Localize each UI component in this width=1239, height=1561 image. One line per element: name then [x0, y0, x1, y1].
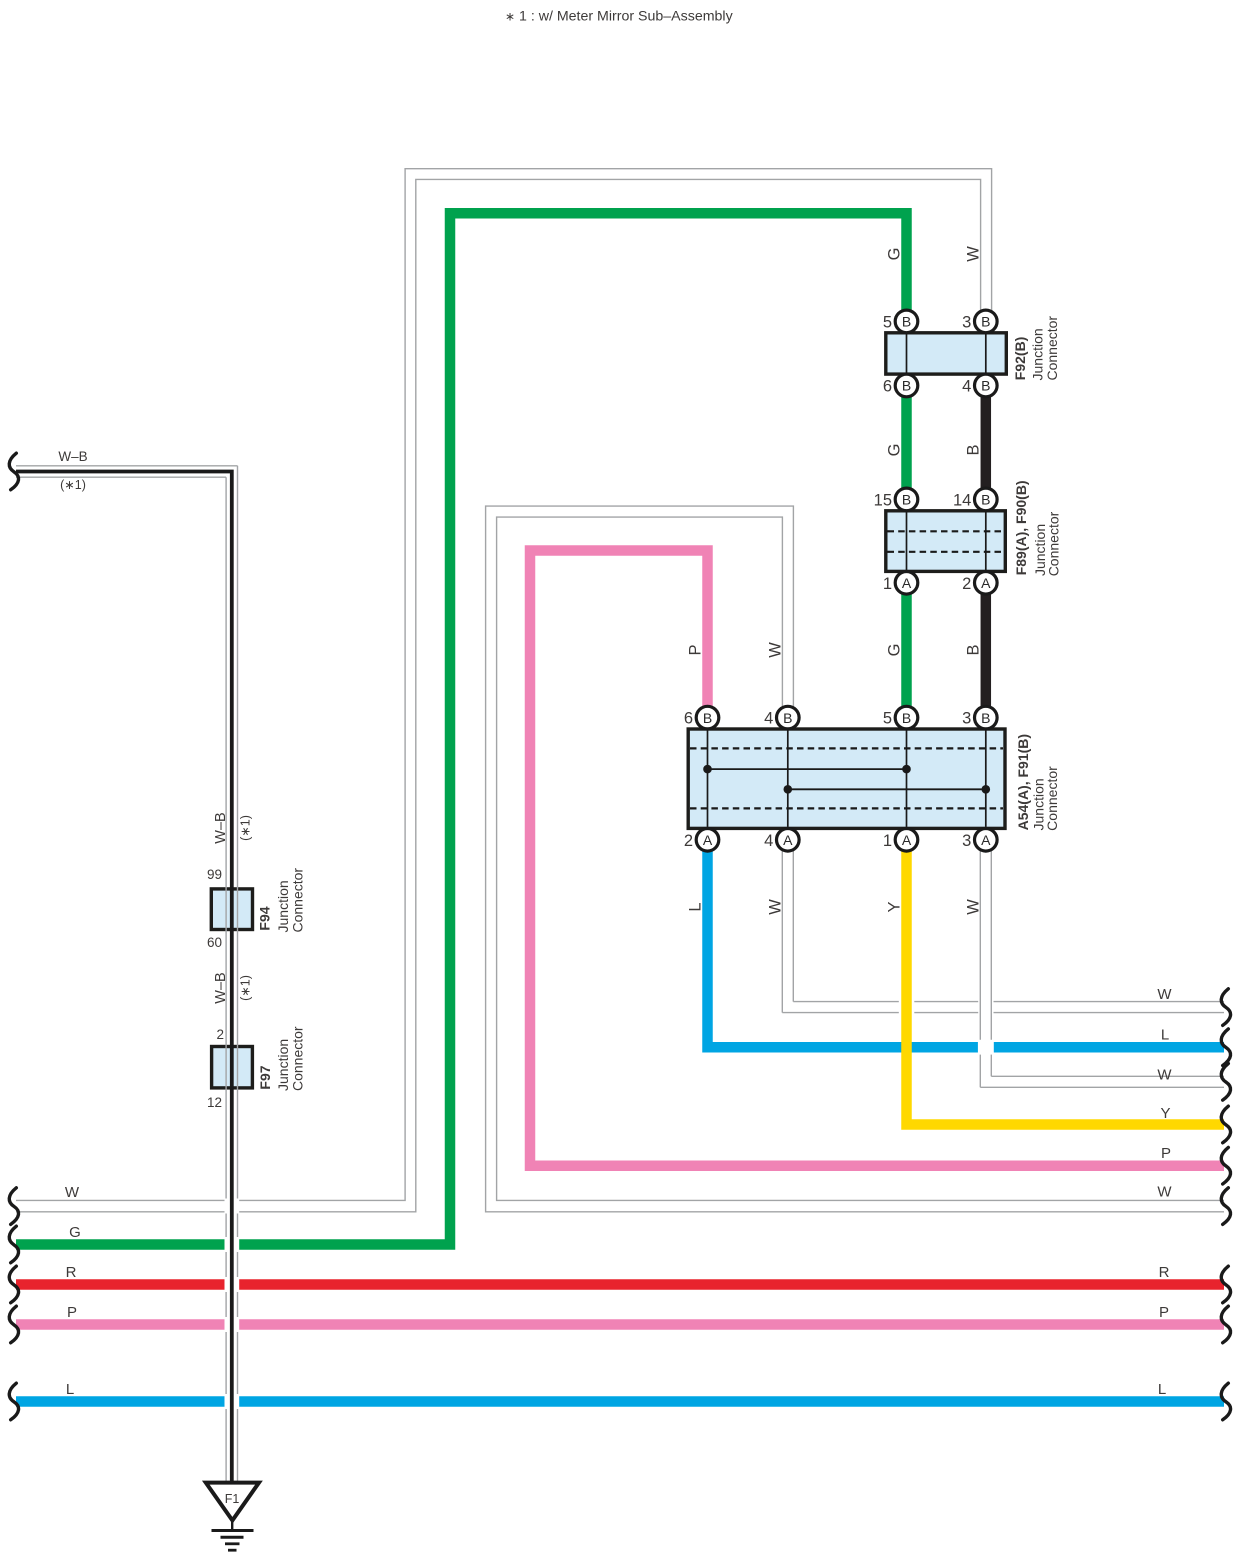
pin 3 A54 bottom: [975, 829, 998, 852]
svg-text:1: 1: [883, 832, 892, 850]
svg-text:B: B: [964, 444, 982, 455]
pin 5 F92: [895, 310, 918, 333]
svg-text:B: B: [981, 314, 990, 330]
svg-text:L: L: [1161, 1026, 1169, 1043]
svg-text:2: 2: [962, 575, 971, 593]
svg-text:R: R: [1159, 1264, 1170, 1281]
break symbol left W-B: [9, 453, 18, 490]
svg-text:P: P: [1159, 1304, 1169, 1321]
pin 4 F92: [975, 374, 998, 397]
svg-text:A: A: [703, 832, 713, 848]
svg-text:4: 4: [764, 710, 773, 728]
wire R: bottom red wire: [16, 1279, 225, 1290]
pin 2 F89: [975, 572, 998, 595]
break symbol right W: [1221, 1188, 1230, 1225]
junction connector F97 box: [212, 1047, 253, 1088]
svg-text:12: 12: [207, 1095, 222, 1110]
svg-text:F94: F94: [257, 906, 273, 930]
svg-text:B: B: [981, 378, 990, 394]
svg-text:B: B: [902, 314, 911, 330]
break symbol left G: [9, 1226, 18, 1263]
wire Y: A54 pin 1(A) down and right to break: [907, 845, 1225, 1125]
svg-text:W: W: [964, 246, 982, 262]
svg-text:F89(A), F90(B): F89(A), F90(B): [1013, 480, 1029, 575]
pin 6 A54: [696, 706, 719, 729]
svg-text:15: 15: [874, 491, 892, 509]
svg-text:W: W: [766, 899, 784, 915]
pin 4 A54 bottom: [777, 829, 800, 852]
junction connector F89(A),F90(B) box: [886, 511, 1006, 572]
pin 4 A54 top: [777, 706, 800, 729]
junction connector F94 box: [211, 889, 252, 930]
svg-text:3: 3: [962, 832, 971, 850]
svg-text:A54(A), F91(B): A54(A), F91(B): [1015, 734, 1031, 830]
svg-text:G: G: [69, 1224, 81, 1241]
wire W white loop: left break to F92 pin 3(B): [16, 1199, 225, 1201]
wire P: bottom pink wire: [16, 1319, 225, 1330]
svg-text:G: G: [885, 248, 903, 261]
break symbol left L: [9, 1383, 18, 1420]
wire P: A54 pin 6(B) up, left, down, right to break: [530, 551, 1224, 1166]
svg-text:B: B: [981, 710, 990, 726]
svg-text:(∗1): (∗1): [239, 815, 253, 841]
svg-text:5: 5: [883, 313, 892, 331]
svg-text:W: W: [1157, 986, 1172, 1003]
svg-text:4: 4: [962, 378, 971, 396]
svg-text:F1: F1: [225, 1492, 240, 1506]
svg-text:6: 6: [684, 710, 693, 728]
svg-text:A: A: [981, 832, 991, 848]
svg-text:W: W: [964, 899, 982, 915]
svg-text:W: W: [1157, 1066, 1172, 1083]
svg-text:2: 2: [684, 832, 693, 850]
svg-text:B: B: [783, 710, 792, 726]
svg-text:Y: Y: [1160, 1105, 1170, 1122]
wire G: F92 pin 6(B) to F89 pin 15(B) to A54 pin 5(B): [901, 390, 912, 712]
svg-text:(∗1): (∗1): [239, 975, 253, 1001]
wire W: A54 pin 3(A) down and right to break: [979, 851, 981, 1040]
svg-text:B: B: [703, 710, 712, 726]
pin 1 A54: [895, 829, 918, 852]
svg-text:L: L: [1158, 1381, 1166, 1398]
junction connector F92(B) box: [886, 333, 1007, 374]
svg-text:P: P: [686, 644, 704, 655]
pin 3 F92: [975, 310, 998, 333]
svg-text:A: A: [783, 832, 793, 848]
svg-text:(∗1): (∗1): [60, 478, 86, 492]
break symbol right Y: [1221, 1106, 1230, 1143]
svg-text:99: 99: [207, 867, 222, 882]
wire W-B: left break to ground F1: [16, 465, 238, 467]
svg-text:F92(B): F92(B): [1012, 337, 1028, 381]
pin 1 F89: [895, 572, 918, 595]
break symbol left W: [9, 1188, 18, 1225]
svg-text:4: 4: [764, 832, 773, 850]
svg-text:14: 14: [953, 491, 971, 509]
svg-text:Connector: Connector: [289, 1026, 305, 1091]
svg-text:W: W: [766, 642, 784, 658]
break symbol right L: [1221, 1383, 1230, 1420]
svg-text:∗ 1 : w/ Meter Mirror Sub–Asse: ∗ 1 : w/ Meter Mirror Sub–Assembly: [505, 9, 734, 25]
break symbol left P: [9, 1306, 18, 1343]
svg-text:3: 3: [962, 710, 971, 728]
svg-text:2: 2: [216, 1027, 224, 1042]
svg-text:P: P: [67, 1304, 77, 1321]
svg-text:G: G: [885, 444, 903, 457]
svg-text:B: B: [981, 492, 990, 508]
wire B: F92 pin 4(B) to F89 pin 14(B) to A54 pin 3(B): [981, 390, 992, 712]
svg-text:W: W: [1157, 1184, 1172, 1201]
svg-text:W–B: W–B: [58, 449, 87, 464]
break symbol right W: [1221, 1064, 1230, 1101]
svg-text:A: A: [981, 575, 991, 591]
pin 14 F89: [975, 488, 998, 511]
wire W white loop: A54 pin 4(B) to right break: [486, 506, 1224, 1212]
wire W: A54 pin 4(A) down and right to break: [781, 851, 783, 1013]
svg-text:W–B: W–B: [213, 972, 229, 1003]
svg-text:P: P: [1161, 1145, 1171, 1162]
svg-text:L: L: [686, 902, 704, 911]
break symbol right L: [1221, 1029, 1230, 1066]
svg-text:Connector: Connector: [289, 868, 305, 933]
pin 5 A54: [895, 706, 918, 729]
bus bar node 4B-3B: [788, 788, 986, 790]
svg-text:6: 6: [883, 378, 892, 396]
svg-text:F97: F97: [257, 1065, 273, 1089]
svg-text:W: W: [65, 1184, 80, 1201]
pin 2 A54: [696, 829, 719, 852]
svg-text:B: B: [964, 644, 982, 655]
svg-text:R: R: [66, 1264, 77, 1281]
bus bar node 6B-5B: [708, 768, 907, 770]
svg-text:A: A: [902, 575, 912, 591]
svg-text:Connector: Connector: [1046, 511, 1062, 576]
svg-text:Connector: Connector: [1044, 766, 1060, 831]
break symbol left R: [9, 1266, 18, 1303]
wire G: left break up and over to F92 pin 5(B): [16, 1239, 225, 1250]
pin 6 F92: [895, 374, 918, 397]
svg-text:5: 5: [883, 710, 892, 728]
break symbol right P: [1221, 1306, 1230, 1343]
wire L: bottom blue wire: [16, 1396, 225, 1407]
junction connector A54(A),F91(B) box: [688, 729, 1005, 828]
svg-text:L: L: [66, 1381, 74, 1398]
svg-text:W–B: W–B: [213, 812, 229, 843]
svg-text:Connector: Connector: [1044, 316, 1060, 381]
svg-text:Junction: Junction: [1030, 328, 1046, 380]
svg-text:B: B: [902, 710, 911, 726]
break symbol right W: [1221, 989, 1230, 1026]
svg-text:B: B: [902, 378, 911, 394]
break symbol right R: [1221, 1266, 1230, 1303]
svg-text:Y: Y: [885, 901, 903, 912]
svg-text:B: B: [902, 492, 911, 508]
break symbol right P: [1221, 1147, 1230, 1184]
pin 3 A54 top: [975, 706, 998, 729]
svg-text:60: 60: [207, 935, 222, 950]
svg-text:G: G: [885, 644, 903, 657]
wire L: A54 pin 2(A) down and right to break: [708, 845, 978, 1047]
pin 15 F89: [895, 488, 918, 511]
ground F1: [206, 1483, 259, 1521]
svg-text:3: 3: [962, 313, 971, 331]
svg-text:A: A: [902, 832, 912, 848]
svg-text:1: 1: [883, 575, 892, 593]
